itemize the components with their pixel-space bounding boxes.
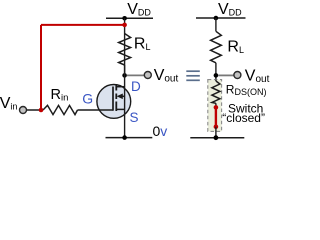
svg-text:G: G: [82, 90, 93, 106]
wire: drain/source vertical through MOSFET: [124, 34, 126, 138]
wire: VDD to RL (right): [215, 18, 217, 31]
transistor Q1 channel segment top: [115, 84, 117, 91]
equivalence bar 3: [186, 79, 200, 81]
wire: source stub inside MOSFET: [116, 108, 124, 110]
wire: main vertical drain axis: [124, 18, 126, 33]
node switch top red dot: [214, 105, 219, 110]
node switch bottom red dot: [214, 124, 219, 129]
resistor RL (left): [119, 34, 131, 66]
svg-text:D: D: [131, 79, 141, 94]
terminal Vout (left): [144, 72, 151, 79]
switch closed red link: [215, 107, 217, 126]
node red dot at VDD axis: [122, 23, 127, 28]
svg-text:S: S: [130, 110, 139, 125]
node ground junction dot (right): [214, 135, 219, 140]
transistor Q1 body arrowhead: [117, 94, 123, 100]
transistor Q1 MOSFET body circle: [97, 85, 131, 119]
resistor RDS(ON): [212, 81, 220, 103]
wire RL bottom to Vout node (right): [215, 63, 217, 80]
wire: drain stub inside MOSFET: [116, 86, 124, 88]
resistor Rin: [43, 105, 78, 114]
node drain junction dot (left): [122, 73, 127, 78]
wire: box top stub: [215, 80, 217, 81]
wire: gate wire right segment: [78, 109, 114, 111]
equivalence bar 2: [186, 75, 200, 77]
VDD rail (right): [196, 17, 246, 19]
transistor Q1 channel segment middle: [115, 94, 117, 100]
transistor Q1 channel segment bottom: [115, 102, 117, 112]
node red dot at gate wire: [39, 108, 44, 113]
terminal Vin: [20, 107, 27, 114]
resistor RL (right): [211, 31, 222, 63]
node ground junction dot (left): [122, 135, 127, 140]
wire: switch to ground rail: [215, 127, 217, 138]
switch equivalent dashed box: [208, 80, 222, 132]
equivalence bar 1: [186, 70, 200, 72]
wire RL bottom to drain node: [124, 65, 126, 75]
transistor Q1 gate bar: [112, 87, 114, 111]
wire: gate wire left segment: [27, 109, 43, 111]
terminal Vout (right): [234, 72, 241, 79]
wire: red gate-to-VDD vertical: [40, 25, 42, 110]
svg-text:“closed”: “closed”: [222, 111, 265, 125]
ground rail 0v (left): [106, 137, 153, 139]
svg-text:0v: 0v: [153, 123, 168, 139]
wire: body arrow line: [119, 95, 125, 97]
node VDD junction dot (left): [122, 16, 127, 21]
VDD rail (left): [106, 17, 153, 19]
wire: gray Vout stub (right): [218, 74, 234, 76]
wire: RDS to switch: [215, 103, 217, 107]
wire: gray Vout stub (left): [127, 74, 144, 76]
node VDD junction dot (right): [214, 16, 219, 21]
ground rail (right): [190, 137, 244, 139]
node Vout junction dot (right): [214, 73, 219, 78]
wire: red gate-to-VDD horizontal: [41, 24, 125, 26]
